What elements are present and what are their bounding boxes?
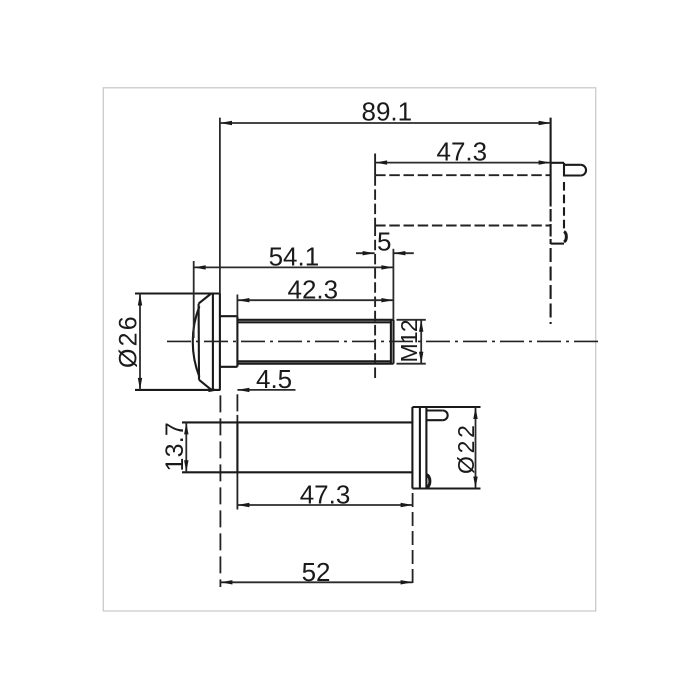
bolt head left edge: [198, 304, 200, 380]
barrel flange right edge: [425, 407, 427, 489]
sleeve flange right edge hidden middle: [563, 182, 565, 230]
dim line 4.5 leader right: [237, 389, 295, 391]
thread minor bottom: [237, 360, 391, 362]
extension line bolt end up: [392, 249, 394, 320]
arrow 4.5 right: [237, 388, 249, 392]
arrow 47.3 top right: [539, 160, 551, 164]
thread major top: [237, 319, 393, 321]
collar bottom edge: [220, 366, 238, 368]
bolt head top chamfer: [199, 294, 212, 304]
extension line collar up: [236, 295, 238, 317]
collar right edge: [236, 316, 238, 367]
thread end face: [392, 320, 394, 364]
svg-text:47.3: 47.3: [437, 136, 488, 166]
arrow 42.3 right: [381, 298, 393, 302]
sleeve pin round cap: [581, 165, 586, 176]
bolt head bottom edge + dia26 bottom extension: [135, 389, 220, 391]
arrow 54.1 right: [381, 265, 393, 269]
dimension lines: [140, 118, 551, 583]
dim line dia26: [139, 294, 141, 390]
arrow dia22 top: [473, 407, 477, 419]
svg-text:13.7: 13.7: [161, 422, 189, 471]
arrow 47.3 top left: [375, 160, 387, 164]
dashed extension below lower flange: [412, 493, 414, 588]
thread minor top: [237, 321, 391, 323]
hidden extension of sleeve left face through bolt: [374, 226, 376, 382]
svg-text:52: 52: [302, 557, 331, 587]
dim line 5 left segment: [356, 252, 375, 254]
dim line M12: [420, 320, 422, 364]
svg-text:Ø26: Ø26: [115, 314, 143, 368]
sleeve flange hidden extension below: [550, 248, 552, 324]
arrow 5 right: [393, 251, 405, 255]
svg-text:47.3: 47.3: [300, 479, 351, 509]
arrow 13.7 bottom: [184, 460, 188, 472]
svg-text:4.5: 4.5: [256, 364, 292, 394]
arrow dia26 top: [138, 294, 142, 306]
sleeve flange left edge dashed part: [550, 194, 552, 244]
svg-text:5: 5: [377, 227, 391, 257]
thread end chamfer line: [390, 320, 392, 364]
arrow 52 left: [220, 580, 232, 584]
bolt head face line: [219, 294, 221, 390]
sleeve flange top edge: [551, 162, 564, 164]
sleeve hook arc: [564, 232, 566, 243]
dim line dia22: [475, 407, 477, 489]
svg-text:54.1: 54.1: [269, 242, 320, 272]
arrow dia26 bottom: [138, 378, 142, 390]
arrow 47.3 bottom left: [237, 503, 249, 507]
dim line 5 right segment: [393, 252, 413, 254]
arrow dia22 bottom: [473, 477, 477, 489]
dim line 42.3: [237, 299, 393, 301]
sleeve phantom bottom (hidden): [375, 225, 550, 227]
arrow 47.3 bottom right: [401, 503, 413, 507]
bolt head dome arc: [193, 306, 200, 377]
thread major bottom: [237, 363, 393, 365]
bolt head rim line: [212, 294, 214, 390]
sleeve flange left edge + extension line (solid part): [550, 118, 552, 194]
arrow 13.7 top: [184, 422, 188, 434]
extension above sleeve left end: [374, 154, 376, 176]
arrow 52 right: [401, 580, 413, 584]
dim line 54.1: [194, 266, 394, 268]
sleeve flange bottom edge: [551, 243, 564, 245]
bolt head bottom chamfer: [199, 380, 212, 390]
barrel flange bottom edge + dia22 extension: [412, 487, 480, 489]
long dashed extension line from head face down: [219, 395, 221, 587]
svg-text:Ø22: Ø22: [453, 422, 479, 474]
arrow M12 bottom: [419, 352, 423, 364]
arrow 89.1 right: [539, 121, 551, 125]
arrow M12 top: [419, 320, 423, 332]
sleeve flange right edge upper: [563, 163, 565, 177]
barrel body left end: [236, 422, 238, 472]
barrel flange middle line: [419, 407, 421, 489]
barrel hook arc: [426, 475, 429, 488]
arrow 89.1 left: [220, 121, 232, 125]
collar top edge: [220, 315, 238, 317]
arrow 5 left: [363, 251, 375, 255]
dim line 52: [220, 581, 412, 583]
border frame: [103, 88, 595, 611]
arrow 54.1 left: [194, 265, 206, 269]
arrowheads: [138, 121, 551, 585]
M12 extension top: [397, 319, 426, 321]
svg-text:M12: M12: [396, 320, 422, 362]
M12 extension bottom: [397, 363, 426, 365]
sleeve pin bottom: [564, 174, 581, 176]
extension line from collar to lower figure (dash then solid): [236, 394, 238, 411]
sleeve phantom top (hidden): [375, 174, 550, 176]
arrow 42.3 left: [237, 298, 249, 302]
barrel flange top edge + dia22 extension: [412, 406, 480, 408]
dimension texts: [115, 97, 488, 587]
extension line head apex: [193, 261, 195, 338]
centerline of bolt: [167, 340, 598, 342]
barrel body bottom + 13.7 extension: [182, 471, 412, 473]
dim line 13.7: [185, 422, 187, 472]
dim line 47.3 bottom: [237, 504, 412, 506]
svg-text:42.3: 42.3: [288, 274, 339, 304]
barrel flange left edge: [411, 407, 413, 489]
sleeve pin top: [564, 164, 581, 166]
svg-text:89.1: 89.1: [362, 97, 413, 127]
extension line at head face up: [219, 118, 221, 294]
dim line 47.3 top: [375, 162, 550, 164]
barrel body top + 13.7 extension: [182, 421, 412, 423]
barrel pin round cap: [443, 411, 448, 421]
barrel pin top: [426, 409, 442, 411]
dim line 89.1: [220, 122, 551, 124]
sleeve phantom left end (hidden): [374, 175, 376, 225]
bolt head top edge + dia26 top extension: [135, 292, 220, 294]
barrel pin bottom: [426, 419, 442, 421]
arrow 4.5 left: [208, 388, 220, 392]
